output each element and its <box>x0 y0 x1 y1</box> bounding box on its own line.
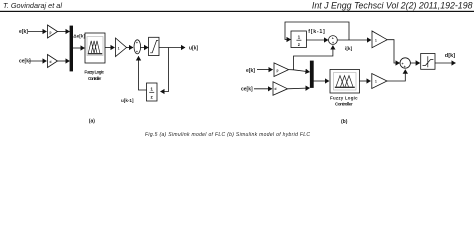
svg-text:1: 1 <box>118 46 120 50</box>
svg-text:+: + <box>404 65 406 69</box>
svg-text:p: p <box>50 30 52 34</box>
svg-text:p: p <box>277 69 279 73</box>
svg-text:1: 1 <box>150 87 153 92</box>
svg-text:T. Govindaraj et al: T. Govindaraj et al <box>3 1 62 10</box>
svg-text:Int J Engg Techsci Vol 2(2) 20: Int J Engg Techsci Vol 2(2) 2011,192-198 <box>312 1 473 11</box>
svg-text:+: + <box>136 50 138 54</box>
svg-text:ce[k]: ce[k] <box>241 87 253 93</box>
svg-text:Fuzzy Logic: Fuzzy Logic <box>84 69 104 74</box>
svg-text:d[k]: d[k] <box>445 53 455 59</box>
svg-text:+: + <box>136 41 138 45</box>
svg-text:Fig.5 (a) Simulink model of FL: Fig.5 (a) Simulink model of FLC (b) Simu… <box>145 132 310 138</box>
svg-text:d: d <box>50 60 52 64</box>
svg-text:u[k-1]: u[k-1] <box>121 98 134 103</box>
svg-text:1: 1 <box>298 35 301 40</box>
svg-text:1: 1 <box>375 39 377 43</box>
svg-text:+: + <box>332 36 334 40</box>
svg-text:1: 1 <box>375 80 377 84</box>
svg-text:e[k]: e[k] <box>246 68 255 74</box>
svg-text:+: + <box>332 41 334 45</box>
svg-text:Controller: Controller <box>335 101 353 106</box>
svg-text:Controller: Controller <box>88 76 101 81</box>
svg-text:u[k]: u[k] <box>189 46 199 52</box>
svg-text:(b): (b) <box>341 119 348 125</box>
svg-text:d: d <box>275 87 277 91</box>
svg-text:Δe[k]: Δe[k] <box>73 34 85 39</box>
svg-text:e[k]: e[k] <box>19 29 28 35</box>
svg-text:(a): (a) <box>89 119 95 125</box>
svg-text:Fuzzy Logic: Fuzzy Logic <box>330 96 358 101</box>
svg-text:ce[k]: ce[k] <box>19 59 31 65</box>
svg-text:f[k-1]: f[k-1] <box>308 29 325 35</box>
svg-text:i[k]: i[k] <box>345 46 353 52</box>
